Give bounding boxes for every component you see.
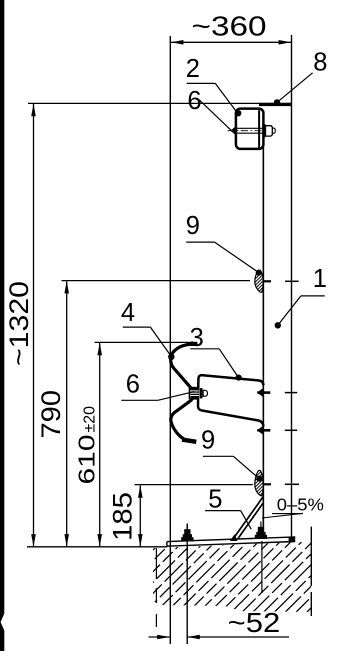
wire post 1 front face x=263 <box>262 110 264 539</box>
svg-text:6: 6 <box>126 371 140 399</box>
node dot for label 9 lower <box>256 476 262 482</box>
rail 4 profile curve <box>171 344 198 440</box>
svg-text:3: 3 <box>190 324 204 352</box>
label 9 upper leader <box>186 241 214 243</box>
anchor bolt left nut <box>184 529 190 535</box>
anchor bolt left stem top <box>186 524 188 530</box>
svg-text:790: 790 <box>36 390 66 439</box>
dimension 610 line <box>99 343 101 546</box>
bracket 3 profile <box>198 375 263 426</box>
slope wedge upper line <box>272 513 303 515</box>
concrete right boundary <box>310 527 312 586</box>
svg-text:610: 610 <box>74 435 100 485</box>
concrete hatching <box>91 536 337 612</box>
base plate left end <box>166 542 168 547</box>
bolt 6 upper nut <box>266 126 273 136</box>
bolt 6 upper shaft <box>237 127 265 129</box>
svg-text:5: 5 <box>208 485 222 513</box>
bolt at bracket top <box>257 391 270 394</box>
node dot for label 3 <box>236 375 242 381</box>
rail 4 bottom edge hook <box>182 440 196 442</box>
label 6 upper leader <box>199 100 231 131</box>
tick on back face lower <box>285 429 297 431</box>
wire post left edge (sigma post) x=170 <box>169 36 171 644</box>
svg-text:9: 9 <box>201 427 215 455</box>
strut 5 front line <box>233 497 263 539</box>
dimension ~1320 line <box>33 104 35 546</box>
tick on back face upper <box>285 392 297 394</box>
base plate 5 top edge <box>167 537 295 542</box>
base plate bottom edge <box>167 542 295 547</box>
bolt 6 upper washer right <box>264 124 266 137</box>
svg-text:185: 185 <box>108 492 138 541</box>
bolt 6 upper head <box>230 126 236 136</box>
bolt 6 lower thread end <box>203 390 207 396</box>
label 6 lower leader <box>121 399 158 401</box>
dimension ~52 line left part <box>149 636 170 638</box>
node dot for label 2 <box>235 110 241 116</box>
bolt 9 lower head (hatched) <box>255 471 263 496</box>
label 3 leader <box>190 348 219 350</box>
ground surface line <box>27 546 167 548</box>
bolt 6 upper centerline <box>228 130 273 132</box>
svg-text:~360: ~360 <box>192 11 267 42</box>
base plate right end <box>289 537 296 542</box>
label 4 leader <box>123 326 151 328</box>
svg-text:~52: ~52 <box>228 607 281 638</box>
wire post 1 back face x=291.5 <box>291 35 293 537</box>
concrete left dashed boundary <box>155 548 157 579</box>
anchor bolt right nut <box>258 527 264 533</box>
bolt 9 lower tick <box>256 483 271 485</box>
bolt 6 lower washer <box>188 387 190 399</box>
svg-text:4: 4 <box>121 299 135 327</box>
plate 8 top bar <box>259 103 292 106</box>
svg-text:9: 9 <box>186 212 200 240</box>
wire post right edge x=187 (anchor rod) <box>186 524 188 645</box>
tick on back face at bolt 9 lower <box>285 483 299 485</box>
bolt 6 upper thread end <box>272 128 275 133</box>
svg-text:1: 1 <box>313 265 327 293</box>
extension line 790 level y=280.6 <box>62 280 251 282</box>
bolt 6 lower nut body <box>190 387 198 400</box>
clamp 2 inner right wall <box>258 110 260 147</box>
clamp 2 body <box>236 109 264 149</box>
svg-text:6: 6 <box>187 87 201 115</box>
svg-text:±20: ±20 <box>82 406 99 433</box>
node dot for label 1 <box>275 322 281 328</box>
drawing frame left border bar <box>0 0 4 651</box>
extension line 610 level y=342.4 <box>95 341 189 343</box>
dimension ~52 line right part <box>188 636 290 638</box>
label 5 leader <box>205 510 241 512</box>
tick on back face at bolt 9 upper <box>285 280 299 282</box>
dimension ~360 line <box>171 41 291 43</box>
anchor bolt right stem <box>260 522 262 528</box>
svg-text:2: 2 <box>186 55 200 83</box>
bolt 6 lower washer 2 <box>200 388 203 398</box>
strut 5 back line <box>237 503 263 540</box>
rail 4 top edge hook <box>188 342 197 346</box>
svg-text:~1320: ~1320 <box>4 281 34 366</box>
node dot for label 9 upper <box>256 270 262 276</box>
border bar pinch notch <box>1 613 5 631</box>
dimension 185 line <box>139 486 141 547</box>
svg-text:0–5%: 0–5% <box>277 494 324 514</box>
label 8 leader <box>278 73 312 102</box>
extension line top of post (1320 ref) y=103 <box>28 102 260 104</box>
slope wedge lower line <box>262 513 303 518</box>
bolt at bracket bottom <box>257 429 270 432</box>
bolt 9 upper tick <box>256 280 271 282</box>
svg-text:8: 8 <box>313 49 327 77</box>
extension line 185 level y=484.6 <box>135 484 253 486</box>
bolt 9 upper head (hatched) <box>255 270 263 292</box>
label 2 leader <box>187 82 216 84</box>
node dot for label 8 <box>274 99 280 105</box>
label 9 lower leader <box>203 455 234 457</box>
node dot for label 4 <box>168 354 174 360</box>
strut 5 weld at base <box>230 534 238 541</box>
dimension 790 line <box>66 281 68 546</box>
label 1 leader <box>301 295 325 297</box>
